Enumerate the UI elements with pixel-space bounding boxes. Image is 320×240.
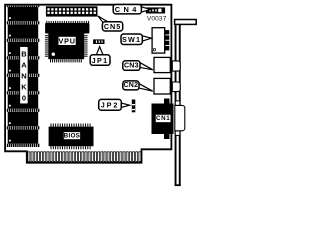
callout label CN4 with pointer — [141, 7, 150, 13]
svg-text:B: B — [21, 49, 27, 58]
callout label SW1 with pointer — [142, 36, 152, 42]
BANK 0 silkscreen label strip — [20, 46, 29, 104]
mounting bracket vertical strip — [175, 24, 181, 186]
svg-text:0: 0 — [22, 93, 26, 102]
feature connector CN5 pin header — [46, 6, 98, 16]
svg-text:JP2: JP2 — [101, 101, 120, 110]
svg-text:SW1: SW1 — [122, 35, 141, 44]
memory chip U6 (BANK 0) — [7, 95, 40, 112]
memory chip U3 (BANK 0) — [7, 42, 40, 59]
svg-text:VPU: VPU — [59, 37, 76, 46]
svg-text:BIOS: BIOS — [64, 132, 81, 139]
connector CN3 jack barrel through bracket — [172, 61, 180, 71]
memory chip U1 (BANK 0) — [7, 6, 40, 25]
connector CN3 body — [154, 57, 170, 72]
VPU graphics processor U10 — [45, 33, 88, 63]
callout label CN5 with pointer — [98, 16, 109, 23]
callout label JP2 with pointer — [121, 103, 130, 108]
memory chip U5 (BANK 0) — [7, 77, 40, 94]
connector CN4 — [146, 7, 165, 13]
svg-text:CN4: CN4 — [115, 5, 140, 14]
svg-text:CN1: CN1 — [156, 115, 170, 122]
svg-text:JP1: JP1 — [92, 56, 109, 65]
BIOS ROM chip — [49, 124, 94, 150]
connector CN2 body — [154, 78, 170, 94]
svg-text:CN5: CN5 — [104, 22, 121, 31]
svg-text:V0037: V0037 — [147, 16, 167, 23]
mounting bracket top tab — [175, 20, 197, 25]
connector CN2 jack barrel through bracket — [172, 82, 180, 92]
DIP IC U9 — [45, 21, 89, 34]
memory chip U4 (BANK 0) — [7, 60, 40, 77]
svg-text:K: K — [21, 82, 27, 91]
callout label CN2 with pointer — [138, 83, 152, 91]
connector CN1 body — [152, 99, 174, 140]
memory chip U2 (BANK 0) — [7, 25, 40, 42]
svg-text:N: N — [21, 71, 26, 80]
DIP switch SW1 — [152, 28, 169, 53]
jumper block JP2 — [132, 100, 136, 113]
svg-text:A: A — [21, 60, 27, 69]
connector CN1 D-sub barrel — [175, 105, 185, 130]
jumper block JP1 — [93, 39, 104, 44]
memory chip U8 (BANK 0) — [7, 130, 40, 148]
svg-text:CN2: CN2 — [123, 82, 138, 89]
memory chip U7 (BANK 0) — [7, 112, 40, 129]
callout label JP1 with pointer — [96, 47, 103, 56]
svg-text:CN3: CN3 — [124, 62, 139, 69]
callout label CN3 with pointer — [139, 62, 152, 70]
card edge connector gold fingers — [28, 152, 141, 162]
connector CN1 D-sub tabs through bracket — [175, 101, 180, 135]
silkscreen text V0037 — [147, 16, 167, 23]
circuit board outline — [5, 5, 171, 163]
